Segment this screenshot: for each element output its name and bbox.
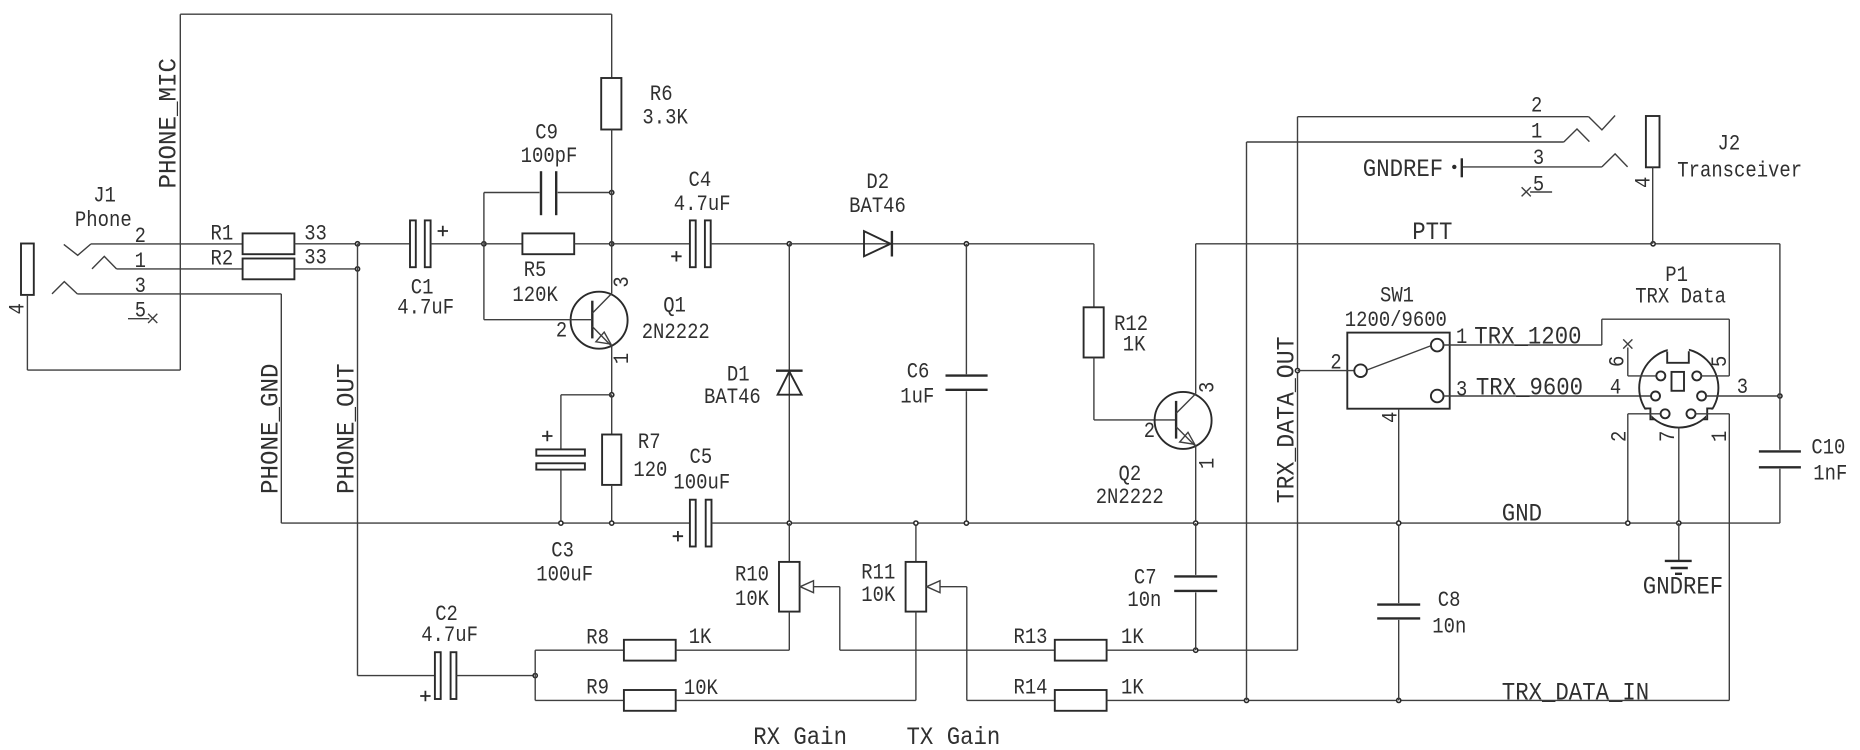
junction pin3/PTT line (1778, 394, 1782, 398)
svg-text:100uF: 100uF (536, 563, 593, 588)
svg-text:1: 1 (1531, 120, 1542, 145)
svg-text:TRX_9600: TRX_9600 (1476, 373, 1583, 402)
capacitor C10 plate top (1759, 450, 1801, 452)
wire node to C1 (358, 243, 411, 245)
wire PHONE_OUT vertical (357, 244, 359, 676)
svg-text:TRX_1200: TRX_1200 (1474, 322, 1581, 351)
svg-text:R5: R5 (524, 258, 547, 283)
junction C6 top (964, 242, 968, 246)
C4 plus (671, 251, 681, 261)
svg-text:1: 1 (1195, 458, 1220, 469)
wire top to R6 (611, 14, 613, 78)
capacitor C6 plate bottom (946, 389, 988, 391)
diode D1 cathode bar (776, 370, 803, 372)
C3 plus (542, 431, 552, 441)
P1 key notch top (1667, 351, 1689, 363)
svg-text:3: 3 (1533, 146, 1544, 171)
junction pin2/bus (1626, 521, 1630, 525)
P1 pin1 circle (1687, 409, 1696, 418)
svg-text:3.3K: 3.3K (642, 106, 688, 131)
svg-text:3: 3 (135, 274, 146, 299)
wire C4 to node (711, 243, 790, 245)
svg-text:R14: R14 (1014, 676, 1048, 701)
svg-text:RX Gain: RX Gain (753, 723, 847, 750)
wire C10 to bus (1779, 469, 1781, 523)
svg-text:2: 2 (135, 224, 146, 249)
svg-text:C4: C4 (689, 168, 712, 193)
capacitor C2 (435, 652, 441, 699)
svg-text:PTT: PTT (1412, 218, 1452, 247)
junction PHONE_OUT top (355, 242, 359, 246)
wire P1 pin3 (1706, 395, 1780, 397)
svg-text:TRX_DATA_OUT: TRX_DATA_OUT (1273, 336, 1302, 503)
wire R6 to Q1 collector (611, 130, 613, 294)
svg-text:PHONE_OUT: PHONE_OUT (333, 364, 362, 495)
svg-text:1: 1 (135, 249, 146, 274)
svg-text:6: 6 (1606, 356, 1631, 367)
junction SW1 pin2 (1295, 369, 1299, 373)
wire node to R5 (484, 243, 523, 245)
resistor R13 (1055, 640, 1107, 661)
wire GND bus left (281, 522, 690, 524)
wire SW1 pin4 down (1398, 409, 1400, 603)
wire R11 top lead (915, 523, 917, 562)
svg-text:1K: 1K (689, 625, 712, 650)
svg-text:100pF: 100pF (521, 144, 578, 169)
svg-text:2N2222: 2N2222 (642, 320, 710, 345)
wire to R8 (535, 649, 624, 651)
J1 pin1 ring contact (92, 256, 117, 269)
svg-text:BAT46: BAT46 (704, 385, 761, 410)
junction C3/bus (559, 521, 563, 525)
svg-text:2: 2 (1607, 431, 1632, 442)
svg-text:1: 1 (610, 353, 635, 364)
wire to R7 (611, 395, 613, 435)
wire C9 right (558, 192, 612, 194)
svg-text:C8: C8 (1438, 588, 1461, 613)
wire J2 pin2 (1298, 116, 1589, 118)
wire R11 bottom lead (915, 612, 917, 701)
C5 plus (673, 531, 683, 541)
wire P1 pin2 down (1627, 414, 1629, 523)
junction C9/R6 (610, 190, 614, 194)
wire J1 pin3 (77, 293, 281, 295)
svg-text:PHONE_GND: PHONE_GND (256, 364, 285, 495)
svg-text:4: 4 (1379, 412, 1404, 423)
capacitor C9 plate right (555, 171, 557, 215)
svg-text:R2: R2 (211, 247, 234, 272)
wire J2 pin3 to GNDREF (1462, 166, 1602, 168)
P1 pin4 circle (1651, 392, 1660, 401)
wire P1 pin1 down (1728, 414, 1730, 701)
resistor R2 (243, 259, 295, 280)
wire to R9 (535, 699, 624, 701)
svg-text:R11: R11 (861, 561, 895, 586)
wire node vertical (534, 650, 536, 700)
resistor R14 (1055, 690, 1107, 711)
R11 wiper arrow (927, 581, 940, 593)
svg-text:10K: 10K (684, 676, 719, 701)
wire PTT (1196, 243, 1780, 245)
GNDREF earth bar2 (1671, 567, 1688, 569)
J2 pin3 contact (1602, 154, 1628, 167)
wire J1 pin2 to R1 (91, 243, 243, 245)
junction C2/R8/R9 (533, 674, 537, 678)
svg-text:10n: 10n (1432, 615, 1466, 640)
wire R1 to node (294, 243, 357, 245)
svg-text:5: 5 (1533, 173, 1544, 198)
J1 pin5 no-connect (148, 314, 157, 323)
wire C7 bottom lead (1195, 592, 1197, 650)
wire R11 wiper (940, 586, 967, 588)
wire PTT down to C10 (1779, 244, 1781, 450)
wire Q2 collector up (1195, 244, 1197, 394)
svg-text:1K: 1K (1121, 676, 1144, 701)
wire PHONE_MIC vertical (179, 14, 181, 370)
junction TRX_DATA_IN rail (1244, 698, 1248, 702)
svg-text:4: 4 (1632, 177, 1657, 188)
switch SW1 box (1347, 333, 1449, 409)
wire to GNDREF earth (1678, 523, 1680, 561)
wire TRX_DATA_OUT vertical (1297, 117, 1299, 651)
junction pin7/bus (1677, 521, 1681, 525)
Q2 base bar (1175, 401, 1177, 439)
junction SW1 pin4/bus (1397, 521, 1401, 525)
svg-text:10K: 10K (861, 583, 896, 608)
wire TRX_DATA_IN vertical (1246, 142, 1248, 700)
capacitor C5 (690, 500, 696, 547)
svg-text:33: 33 (304, 245, 327, 270)
junction PHONE_OUT (355, 267, 359, 271)
wire C3 top lead (560, 395, 562, 450)
GNDREF earth bar3 (1675, 573, 1682, 575)
wire R14 to TRX_DATA_IN rail (1107, 699, 1730, 701)
transistor Q2 body (1155, 392, 1212, 449)
svg-text:TRX Data: TRX Data (1635, 285, 1726, 310)
svg-text:TRX_DATA_IN: TRX_DATA_IN (1502, 678, 1649, 707)
svg-text:TX Gain: TX Gain (907, 723, 1001, 750)
SW1 lever (1367, 346, 1431, 370)
capacitor C10 plate bottom (1759, 466, 1801, 468)
Q2 emitter diagonal (1176, 427, 1196, 447)
wire R8 to R10 bottom (676, 649, 790, 651)
junction R7/bus (610, 521, 614, 525)
wire GND bus right (712, 522, 1780, 524)
wire PHONE_MIC top (180, 13, 611, 15)
J2 pin5 no-connect (1522, 187, 1531, 196)
svg-text:BAT46: BAT46 (849, 194, 906, 219)
wire Q2 base (1094, 419, 1176, 421)
wire J1 pin4 down (26, 295, 28, 370)
wire P1 pin6 up (1627, 348, 1629, 376)
wire C8 bottom lead (1398, 620, 1400, 701)
junction J2 pin4/PTT (1651, 242, 1655, 246)
capacitor C1 (410, 220, 416, 267)
J1 pin3 contact (52, 282, 77, 294)
wire P1 pin2 (1628, 413, 1661, 415)
wire C9 node to Q1 base (483, 193, 485, 320)
svg-text:2: 2 (556, 318, 567, 343)
wire R10 bottom lead (788, 612, 790, 651)
junction C7 bottom (1194, 648, 1198, 652)
Q1 emitter diagonal (592, 327, 611, 347)
wire C3 bottom lead (560, 470, 562, 523)
svg-text:1nF: 1nF (1813, 462, 1847, 487)
wire C1 to node (431, 243, 484, 245)
P1 pin2 circle (1661, 409, 1670, 418)
Q2 emitter arrow (1180, 432, 1195, 444)
junction Q1 emitter node (610, 393, 614, 397)
svg-text:120: 120 (633, 458, 667, 483)
wire TRX_9600 to P1 pin4 (1444, 395, 1652, 397)
svg-text:Q2: Q2 (1119, 462, 1142, 487)
svg-text:SW1: SW1 (1380, 283, 1414, 308)
wire P1 pin7 to bus (1678, 428, 1680, 523)
wire R2 to node (294, 268, 357, 270)
wire P1 pin1 (1696, 413, 1730, 415)
svg-text:Phone: Phone (75, 208, 132, 233)
C1 plus (438, 226, 448, 236)
svg-text:J2: J2 (1718, 132, 1741, 157)
P1 notch right (1703, 408, 1713, 419)
svg-text:10n: 10n (1127, 588, 1161, 613)
wire P1 pin5 up (1728, 319, 1730, 376)
svg-text:GNDREF: GNDREF (1643, 573, 1723, 602)
svg-text:C9: C9 (535, 120, 558, 145)
svg-text:1: 1 (1456, 325, 1467, 350)
P1 pin6 circle (1656, 371, 1665, 380)
wire R10 wiper (814, 586, 840, 588)
svg-text:1: 1 (1708, 431, 1733, 442)
potentiometer R10 body (779, 562, 800, 612)
P1 pin5 circle (1692, 371, 1701, 380)
wire Q2 emitter to bus (1195, 446, 1197, 523)
svg-text:R8: R8 (586, 625, 609, 650)
P1 pin6 no-connect (1623, 339, 1632, 348)
capacitor C6 plate top (946, 374, 988, 376)
svg-text:2: 2 (1144, 419, 1155, 444)
svg-text:1K: 1K (1123, 333, 1146, 358)
J2 pin2 tip contact (1589, 116, 1615, 130)
resistor R6 (601, 78, 621, 130)
svg-text:J1: J1 (93, 183, 116, 208)
svg-text:4.7uF: 4.7uF (397, 296, 454, 321)
svg-text:D2: D2 (866, 170, 889, 195)
Q2 collector diagonal (1176, 394, 1196, 414)
wire R10 wiper down (839, 587, 841, 651)
wire R11 wiper down (966, 587, 968, 701)
junction R5/C9 left (482, 242, 486, 246)
wire R12 down (1093, 358, 1095, 420)
wire node to C4 (612, 243, 690, 245)
Q1 base bar (591, 301, 593, 339)
svg-text:33: 33 (304, 221, 327, 246)
wire J2 pin1 (1247, 141, 1564, 143)
wire through D2 to R12 corner (789, 243, 1094, 245)
resistor R7 (602, 435, 621, 485)
capacitor C3 plate bottom (536, 463, 585, 469)
svg-text:R13: R13 (1014, 625, 1048, 650)
svg-text:2: 2 (1330, 351, 1341, 376)
capacitor C3 plate top (536, 449, 585, 455)
svg-text:C5: C5 (690, 445, 713, 470)
svg-text:4.7uF: 4.7uF (421, 623, 478, 648)
wire TRX_1200 (1444, 344, 1602, 346)
resistor R8 (624, 640, 676, 661)
P1 notch masks (1668, 347, 1689, 353)
svg-text:2: 2 (1531, 94, 1542, 119)
junction R11/bus (914, 521, 918, 525)
svg-text:R7: R7 (638, 430, 661, 455)
svg-text:120K: 120K (512, 283, 558, 308)
svg-text:3: 3 (1737, 375, 1748, 400)
svg-text:3: 3 (610, 276, 635, 287)
wire C9 left (484, 192, 540, 194)
wire C6 bottom lead (965, 391, 967, 523)
svg-text:R9: R9 (586, 676, 609, 701)
wire Q1 emitter down (611, 346, 613, 395)
wire emitter to C3 (561, 394, 612, 396)
wire R9 to R11 bottom (676, 699, 916, 701)
junction D1 top (787, 242, 791, 246)
wire J1 pin1 to R2 (117, 268, 243, 270)
svg-text:100uF: 100uF (673, 471, 730, 496)
svg-text:7: 7 (1656, 431, 1681, 442)
C2 plus (420, 691, 430, 701)
svg-text:5: 5 (1708, 356, 1733, 367)
SW1 throw 1 contact (1431, 339, 1444, 352)
wire pin5 corner to TRX_1200 (1601, 319, 1603, 345)
svg-text:3: 3 (1456, 378, 1467, 403)
wire J2 pin4 to PTT (1652, 167, 1654, 244)
connector J2 sleeve (1646, 116, 1660, 167)
svg-text:1K: 1K (1121, 625, 1144, 650)
resistor R12 (1084, 307, 1104, 357)
wire C6 top lead (965, 244, 967, 374)
connector J1 sleeve (21, 244, 34, 295)
capacitor C7 plate top (1174, 575, 1217, 577)
GNDREF power bar (1461, 158, 1463, 177)
wire R10 top lead (788, 523, 790, 562)
wire J1 bottom to PHONE_MIC (27, 369, 180, 371)
svg-text:C3: C3 (551, 539, 574, 564)
svg-text:GND: GND (1502, 499, 1542, 528)
junction D1/R10/bus (787, 521, 791, 525)
svg-text:C6: C6 (907, 360, 930, 385)
resistor R5 (522, 233, 574, 254)
GNDREF power dot (1452, 165, 1456, 169)
svg-text:Q1: Q1 (663, 294, 686, 319)
wire PHONE_OUT to C2 (358, 675, 435, 677)
wire Q1 base (484, 319, 592, 321)
svg-text:R10: R10 (735, 563, 769, 588)
wire wiper row to R13 (840, 649, 1055, 651)
GNDREF earth bar1 (1665, 560, 1692, 562)
svg-text:4: 4 (1610, 376, 1621, 401)
wire pin5 top (1602, 318, 1730, 320)
resistor R9 (624, 690, 676, 711)
P1 pin3 circle (1697, 392, 1706, 401)
junction C8/rail (1397, 698, 1401, 702)
svg-text:4.7uF: 4.7uF (674, 192, 731, 217)
capacitor C7 plate bottom (1174, 590, 1217, 592)
capacitor C9 plate left (540, 171, 542, 215)
svg-text:1uF: 1uF (900, 385, 934, 410)
svg-text:5: 5 (135, 299, 146, 324)
svg-text:R6: R6 (650, 82, 673, 107)
wire C7 top lead (1195, 523, 1197, 575)
svg-text:10K: 10K (735, 587, 770, 612)
svg-text:GNDREF: GNDREF (1363, 155, 1443, 184)
wire wiper row to R14 (967, 699, 1055, 701)
svg-text:3: 3 (1195, 382, 1220, 393)
wire P1 pin6 (1628, 375, 1657, 377)
R10 wiper arrow (800, 581, 813, 593)
J1 pin2 tip contact (64, 244, 91, 255)
P1 key rectangle (1672, 372, 1685, 391)
resistor R1 (243, 233, 295, 254)
svg-text:1200/9600: 1200/9600 (1345, 308, 1447, 333)
diode D2 triangle (864, 231, 891, 256)
svg-text:2N2222: 2N2222 (1096, 485, 1164, 510)
svg-text:Transceiver: Transceiver (1677, 159, 1802, 184)
J2 pin5 stub (1530, 191, 1552, 193)
SW1 throw 3 contact (1431, 390, 1444, 403)
Q1 emitter arrow (596, 332, 611, 344)
capacitor C4 (690, 220, 696, 267)
J2 pin1 ring contact (1564, 129, 1590, 142)
P1 notch left (1645, 408, 1655, 419)
junction Q2 emitter/bus (1194, 521, 1198, 525)
wire PHONE_GND vertical (280, 294, 282, 523)
capacitor C8 plate top (1377, 603, 1420, 605)
svg-text:C7: C7 (1134, 566, 1157, 591)
connector P1 outline (1639, 348, 1718, 427)
Q1 collector diagonal (592, 294, 611, 314)
capacitor C8 plate bottom (1377, 617, 1420, 619)
J1 pin5 stub (128, 318, 149, 320)
SW1 common contact (1354, 364, 1367, 377)
svg-text:C10: C10 (1811, 436, 1845, 461)
wire through D1 (788, 244, 790, 523)
junction C6/bus (964, 521, 968, 525)
wire P1 pin5 (1701, 375, 1729, 377)
wire R5 to node (574, 243, 612, 245)
junction R6/Q1 collector (610, 242, 614, 246)
diode D2 cathode bar (891, 231, 893, 257)
svg-text:D1: D1 (727, 363, 750, 388)
transistor Q1 body (571, 292, 628, 349)
wire to R12 (1093, 244, 1095, 307)
potentiometer R11 body (906, 562, 927, 612)
wire R7 to GND bus (611, 485, 613, 523)
wire C2 to node (456, 675, 535, 677)
wire SW1 pin2 (1298, 370, 1355, 372)
svg-text:PHONE_MIC: PHONE_MIC (155, 58, 184, 189)
svg-text:R1: R1 (211, 222, 234, 247)
diode D1 triangle (778, 372, 802, 395)
wire R13 to TRX_DATA_OUT corner (1107, 649, 1298, 651)
svg-text:4: 4 (6, 303, 31, 314)
